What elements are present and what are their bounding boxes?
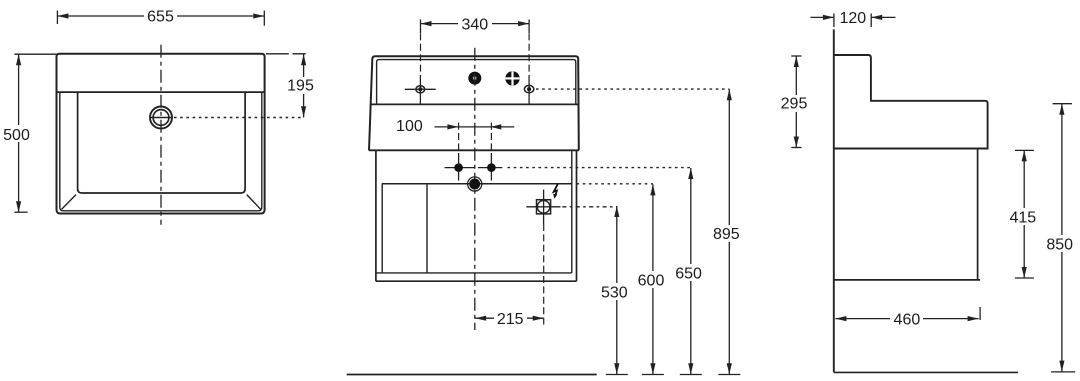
svg-text:460: 460 xyxy=(894,312,921,329)
svg-text:295: 295 xyxy=(781,96,808,113)
svg-text:600: 600 xyxy=(638,272,665,289)
svg-text:895: 895 xyxy=(713,226,740,243)
svg-text:195: 195 xyxy=(287,78,314,95)
svg-text:215: 215 xyxy=(497,311,524,328)
svg-text:340: 340 xyxy=(461,16,488,33)
svg-text:850: 850 xyxy=(1046,236,1073,253)
svg-text:530: 530 xyxy=(601,284,628,301)
svg-text:650: 650 xyxy=(675,265,702,282)
svg-text:500: 500 xyxy=(3,127,30,144)
svg-text:655: 655 xyxy=(147,9,174,26)
svg-text:120: 120 xyxy=(839,10,866,27)
svg-text:415: 415 xyxy=(1009,209,1036,226)
svg-text:100: 100 xyxy=(396,118,423,135)
